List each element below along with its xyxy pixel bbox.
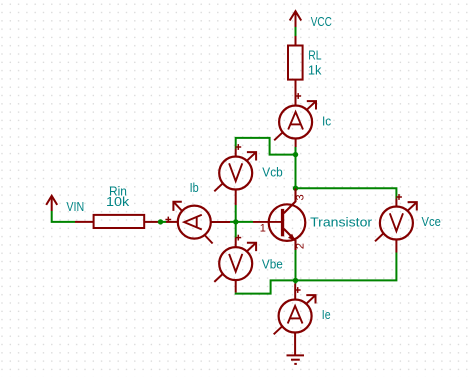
junction collector node (293, 186, 298, 191)
svg-text:Ie: Ie (322, 307, 331, 322)
voltmeter Vbe (214, 235, 256, 293)
voltmeter Vcb wire to top (236, 138, 296, 155)
junction emitter node (293, 278, 298, 283)
svg-text:VCC: VCC (311, 14, 332, 29)
wire Ib to base (230, 221, 253, 223)
wire Vce bottom leg (296, 253, 397, 281)
svg-text:Vce: Vce (422, 214, 441, 229)
power symbol VIN (46, 196, 57, 211)
resistor Rin (75, 215, 158, 228)
svg-text:3: 3 (295, 194, 307, 200)
wire Vcb to base junction to Vbe (235, 205, 237, 238)
voltmeter Vcb (214, 144, 256, 205)
ammeter Ic (274, 93, 316, 147)
wire VCC to RL (295, 27, 297, 36)
resistor RL (288, 36, 303, 106)
svg-text:Ib: Ib (190, 180, 199, 195)
ground (287, 355, 305, 364)
svg-text:1k: 1k (308, 62, 322, 77)
svg-text:RL: RL (308, 48, 321, 63)
junction base node (233, 219, 238, 224)
transistor Q Transistor (253, 189, 305, 251)
power symbol VCC (290, 11, 302, 27)
wire Ic to junction (295, 147, 297, 155)
wire VIN elbow (52, 211, 75, 222)
svg-text:Vcb: Vcb (262, 165, 282, 180)
svg-text:1: 1 (260, 223, 266, 235)
wire collector node to Vce top (296, 188, 397, 198)
svg-text:10k: 10k (106, 194, 130, 209)
junction after Rin (158, 219, 163, 224)
svg-text:2: 2 (295, 243, 307, 249)
junction below Ic (293, 152, 298, 157)
ammeter Ib (rotated 90 CCW, arrow NW) (165, 202, 230, 244)
svg-text:Transistor: Transistor (310, 214, 373, 229)
wire junction to collector node (295, 155, 297, 189)
wire emitter to node (295, 250, 297, 284)
wire Rin to Ib (158, 221, 166, 223)
ammeter Ie (274, 284, 316, 356)
svg-text:Ic: Ic (322, 114, 332, 129)
voltmeter Vce (375, 194, 417, 252)
svg-text:VIN: VIN (66, 199, 84, 214)
wire Vbe bottom to emitter node (236, 280, 296, 293)
svg-text:Vbe: Vbe (262, 257, 283, 272)
